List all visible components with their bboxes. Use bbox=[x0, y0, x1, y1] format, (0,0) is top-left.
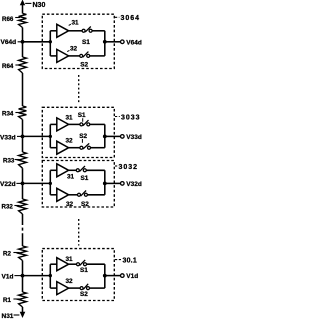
node output junction 3033 bbox=[103, 135, 107, 139]
label 31 3033 bbox=[66, 115, 74, 122]
wire buffer 32 output to switch S2 30.1 bbox=[69, 287, 81, 289]
dotted continuation line between blocks 3032 and 30.1 bbox=[78, 219, 80, 246]
svg-text:S2: S2 bbox=[79, 133, 87, 140]
node N30 terminal arrow bbox=[20, 0, 25, 5]
label N30 bbox=[25, 2, 45, 9]
buffer amplifier 32 3033 bbox=[57, 141, 69, 154]
svg-text:V1d: V1d bbox=[2, 273, 14, 280]
svg-text:S2: S2 bbox=[80, 61, 88, 68]
wire switch S1 to join 3033 bbox=[90, 123, 105, 125]
wire output join vertical 3033 bbox=[104, 124, 106, 147]
wire output join vertical 30.1 bbox=[104, 264, 106, 288]
switch S2 3064 bbox=[80, 52, 90, 58]
dotted continuation line between blocks 3064 and 3033 bbox=[78, 75, 80, 104]
label R33 bbox=[3, 158, 20, 165]
label S2 3032 bbox=[81, 201, 89, 208]
wire buffer 32 input 3064 bbox=[50, 55, 57, 57]
wire output 30.1 bbox=[105, 275, 121, 277]
terminal output V32d 3032 bbox=[121, 182, 125, 186]
wire buffer 32 output to switch S2 3032 bbox=[69, 194, 78, 196]
svg-text:32: 32 bbox=[66, 138, 74, 145]
wire buffer 31 input 3064 bbox=[50, 30, 57, 32]
resistor R34 bbox=[19, 106, 27, 120]
wire input 3033 bbox=[23, 135, 51, 137]
svg-text:3032: 3032 bbox=[119, 164, 139, 171]
label N31 bbox=[2, 313, 20, 319]
label R64 bbox=[2, 63, 20, 70]
label 32 30.1 bbox=[66, 278, 74, 285]
node V64d junction bbox=[21, 40, 25, 44]
wire switch S1 to join 30.1 bbox=[87, 263, 105, 265]
node input junction 30.1 bbox=[49, 274, 52, 277]
label 31 3064 bbox=[69, 19, 79, 26]
dashed box block 30.1 bbox=[42, 249, 114, 301]
svg-text:S1: S1 bbox=[78, 112, 86, 119]
wire inner vertical 3033 bbox=[49, 124, 51, 147]
svg-text:31: 31 bbox=[66, 115, 74, 122]
svg-text:R32: R32 bbox=[2, 204, 14, 211]
svg-text:S1: S1 bbox=[80, 267, 88, 274]
node output junction 3032 bbox=[103, 182, 107, 186]
svg-text:R66: R66 bbox=[2, 16, 14, 23]
wire rail below R32 bbox=[22, 214, 24, 222]
node input junction 3064 bbox=[49, 40, 52, 43]
svg-text:3064: 3064 bbox=[121, 15, 141, 22]
wire buffer 31 input 30.1 bbox=[50, 263, 57, 265]
node N31 terminal arrow bbox=[20, 312, 26, 318]
wire rail R33 to R32 bbox=[22, 168, 24, 199]
label R34 bbox=[2, 110, 20, 117]
label V64d bbox=[1, 39, 22, 46]
label S2 30.1 bbox=[80, 291, 88, 298]
wire switch S2 to join 3033 bbox=[91, 147, 105, 149]
svg-text:R33: R33 bbox=[3, 158, 15, 165]
label 32 3032 bbox=[66, 201, 74, 208]
switch S2 30.1 bbox=[80, 284, 89, 290]
buffer amplifier 32 30.1 bbox=[57, 282, 69, 295]
resistor R32 bbox=[19, 199, 27, 214]
svg-text:V1d: V1d bbox=[126, 273, 138, 280]
switch S1 30.1 bbox=[77, 260, 87, 266]
label V22d bbox=[0, 181, 21, 188]
svg-text:R34: R34 bbox=[2, 110, 14, 117]
buffer amplifier 32 3064 bbox=[57, 49, 69, 62]
svg-text:R2: R2 bbox=[3, 251, 11, 258]
wire buffer 31 input 3033 bbox=[50, 123, 57, 125]
svg-text:31: 31 bbox=[72, 19, 80, 26]
svg-text:N31: N31 bbox=[2, 313, 14, 319]
wire rail dashed continuation bbox=[22, 222, 24, 236]
node output junction 3064 bbox=[103, 40, 107, 44]
switch S2 3033 bbox=[80, 143, 91, 149]
wire buffer 31 input 3032 bbox=[50, 169, 57, 171]
wire output join vertical 3064 bbox=[104, 31, 106, 56]
wire buffer 32 output to switch S2 3064 bbox=[69, 55, 80, 57]
dashed box block 3032 bbox=[42, 161, 114, 208]
wire output 3032 bbox=[105, 182, 121, 184]
wire output 3064 bbox=[105, 41, 121, 43]
svg-text:V33d: V33d bbox=[126, 134, 142, 141]
node V1d junction bbox=[21, 274, 25, 278]
svg-text:V22d: V22d bbox=[0, 181, 16, 188]
switch S1 3033 bbox=[80, 120, 90, 126]
svg-text:31: 31 bbox=[66, 256, 74, 263]
buffer amplifier 31 3064 bbox=[57, 24, 69, 37]
node input junction 3033 bbox=[49, 135, 52, 138]
svg-text:S2: S2 bbox=[81, 201, 89, 208]
svg-text:S1: S1 bbox=[82, 39, 90, 46]
node V33d junction bbox=[21, 135, 25, 139]
switch S2 3032 bbox=[78, 191, 88, 197]
resistor R64 bbox=[19, 57, 27, 73]
label S1 3033 bbox=[78, 112, 86, 122]
node V22d junction bbox=[21, 182, 25, 186]
wire buffer 31 output to switch S1 3033 bbox=[69, 123, 80, 125]
svg-text:N30: N30 bbox=[33, 2, 46, 9]
svg-text:S1: S1 bbox=[81, 175, 89, 182]
buffer amplifier 31 3032 bbox=[57, 164, 69, 177]
label R2 bbox=[3, 251, 20, 258]
terminal output V33d 3033 bbox=[121, 135, 125, 139]
label R1 bbox=[3, 297, 20, 304]
label S1 30.1 bbox=[80, 267, 88, 274]
svg-text:32: 32 bbox=[66, 278, 74, 285]
wire rail top bbox=[22, 2, 24, 13]
node output junction 30.1 bbox=[103, 274, 107, 278]
label S1 3064 bbox=[82, 39, 90, 46]
svg-text:V33d: V33d bbox=[0, 134, 16, 141]
wire switch S2 to join 3032 bbox=[87, 194, 104, 196]
wire input 3064 bbox=[23, 41, 51, 43]
wire output join vertical 3032 bbox=[104, 170, 106, 195]
wire rail R64 to R34 bbox=[22, 73, 24, 106]
svg-text:32: 32 bbox=[66, 201, 74, 208]
wire buffer 32 input 30.1 bbox=[50, 287, 57, 289]
wire buffer 32 input 3033 bbox=[50, 147, 57, 149]
buffer amplifier 31 3033 bbox=[57, 118, 69, 131]
svg-text:32: 32 bbox=[70, 46, 78, 53]
wire switch S2 to join 3064 bbox=[90, 55, 105, 57]
wire rail to R2 bbox=[22, 236, 24, 246]
svg-text:V32d: V32d bbox=[126, 181, 142, 188]
label R66 bbox=[2, 16, 20, 23]
label 31 3032 bbox=[67, 173, 75, 180]
wire rail bottom bbox=[22, 307, 24, 313]
wire switch S1 to join 3032 bbox=[86, 169, 105, 171]
wire buffer 32 input 3032 bbox=[50, 194, 57, 196]
label V1d bbox=[2, 273, 22, 280]
wire output 3033 bbox=[105, 135, 121, 137]
label S1 3032 bbox=[81, 175, 89, 182]
terminal output V1d 30.1 bbox=[121, 274, 125, 278]
buffer amplifier 32 3032 bbox=[57, 188, 69, 201]
buffer amplifier 31 30.1 bbox=[57, 258, 69, 271]
label 3032 bbox=[115, 164, 138, 171]
wire rail R66 to R64 bbox=[22, 28, 24, 58]
svg-text:30.1: 30.1 bbox=[123, 257, 137, 264]
wire input 30.1 bbox=[23, 275, 51, 277]
node input junction 3032 bbox=[49, 182, 52, 185]
label 3064 bbox=[115, 15, 140, 22]
wire buffer 31 output to switch S1 3032 bbox=[69, 169, 77, 171]
dashed box block 3064 bbox=[42, 14, 114, 68]
label V33d bbox=[0, 134, 21, 141]
wire inner vertical 3032 bbox=[49, 170, 51, 195]
svg-text:S2: S2 bbox=[80, 291, 88, 298]
label 32 3033 bbox=[66, 138, 74, 145]
terminal output V64d 3064 bbox=[121, 40, 125, 44]
label 30.1 bbox=[115, 257, 137, 264]
resistor R66 bbox=[19, 13, 27, 27]
wire inner vertical 3064 bbox=[49, 31, 51, 56]
label S2 3064 bbox=[80, 61, 88, 68]
resistor R33 bbox=[19, 152, 27, 168]
wire rail R34 to R33 bbox=[22, 120, 24, 153]
svg-text:3033: 3033 bbox=[121, 114, 141, 121]
label 31 30.1 bbox=[66, 256, 74, 263]
wire switch S1 to join 3064 bbox=[92, 30, 105, 32]
svg-text:R1: R1 bbox=[3, 297, 11, 304]
label 3033 bbox=[115, 114, 141, 121]
wire rail R2 to R1 bbox=[22, 261, 24, 293]
label 32 3064 bbox=[67, 46, 77, 53]
svg-text:V64d: V64d bbox=[126, 39, 142, 46]
wire buffer 31 output to switch S1 3064 bbox=[69, 30, 83, 32]
wire inner vertical 30.1 bbox=[49, 264, 51, 288]
label R32 bbox=[2, 204, 20, 211]
switch S1 3064 bbox=[82, 27, 92, 33]
wire input 3032 bbox=[23, 182, 51, 184]
svg-text:V64d: V64d bbox=[1, 39, 17, 46]
dashed box block 3033 bbox=[42, 107, 114, 157]
svg-text:31: 31 bbox=[67, 173, 75, 180]
resistor R2 bbox=[19, 246, 27, 261]
resistor R1 bbox=[19, 292, 27, 307]
wire buffer 32 output to switch S2 3033 bbox=[69, 147, 80, 149]
wire switch S2 to join 30.1 bbox=[90, 287, 105, 289]
svg-text:R64: R64 bbox=[2, 63, 14, 70]
switch S1 3032 bbox=[76, 166, 86, 172]
wire buffer 31 output to switch S1 30.1 bbox=[69, 263, 77, 265]
label S2 3033 bbox=[79, 133, 87, 143]
